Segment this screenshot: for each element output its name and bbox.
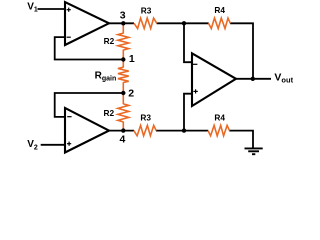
wire U3 output to Vout: [234, 78, 271, 80]
svg-text:R3: R3: [140, 113, 151, 123]
node 1 junction dot: [121, 57, 125, 61]
top junction dot: [182, 21, 186, 25]
wire R4 to feedback corner (top): [230, 23, 253, 79]
resistor R2 bottom lead stubs: [122, 93, 124, 104]
resistor R4 (top) zigzag: [209, 18, 231, 28]
svg-text:R4: R4: [214, 112, 225, 122]
wire V2 to U2 + input: [41, 144, 64, 146]
svg-text:3: 3: [120, 9, 126, 21]
resistor Rgain lead stubs: [122, 60, 124, 68]
op-amp U2: [65, 108, 109, 153]
node 3 junction dot: [121, 21, 125, 25]
wire U1 output to R3: [105, 22, 134, 24]
resistor R2 (bottom) zigzag: [118, 104, 129, 122]
svg-text:R2: R2: [104, 108, 115, 118]
wire R4 to ground corner: [229, 131, 253, 148]
wire R3 to R4 (top): [157, 22, 209, 24]
resistor R3 (top) zigzag: [134, 18, 157, 28]
wire V1 to U1 + input: [38, 8, 66, 10]
bottom junction dot: [182, 128, 186, 132]
wire U1 - input feedback to node 1: [55, 37, 124, 59]
wire bottom junction to U3 + input: [184, 94, 192, 132]
op-amp U3: [192, 53, 236, 106]
svg-text:2: 2: [128, 87, 134, 99]
op-amp U1: [65, 2, 109, 45]
resistor R3 (bottom) zigzag: [134, 125, 156, 135]
svg-text:1: 1: [129, 53, 135, 65]
wire top junction to U3 - input: [184, 22, 192, 62]
svg-text:R2: R2: [104, 36, 115, 46]
node 4 junction dot: [121, 128, 125, 132]
svg-text:4: 4: [120, 134, 126, 146]
svg-text:R4: R4: [214, 5, 225, 15]
wire R3 to R4 (bottom): [156, 130, 208, 132]
resistor R4 (bottom) zigzag: [208, 125, 230, 135]
resistor R2 (top) zigzag: [118, 33, 129, 50]
output junction dot: [251, 77, 255, 81]
wire U2 - input feedback to node 2: [55, 93, 124, 117]
resistor R2 top lead stubs: [122, 23, 124, 33]
node 2 junction dot: [121, 91, 125, 95]
svg-text:R3: R3: [141, 6, 152, 16]
ground: [245, 148, 263, 154]
resistor Rgain zigzag: [118, 67, 129, 82]
wire U2 output to R3 bottom: [104, 130, 134, 132]
